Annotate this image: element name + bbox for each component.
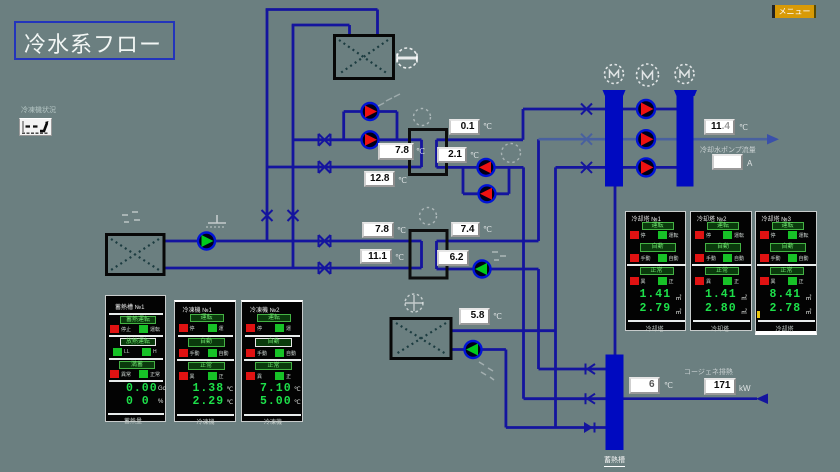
wire riser B x538.5 lower xyxy=(537,269,540,369)
wire riser B x538.5 upper xyxy=(537,139,540,241)
unit B4 xyxy=(470,151,479,160)
wire HX2 left U-turn x421.5 xyxy=(420,241,423,268)
pump HP2 red right xyxy=(637,130,655,148)
wire header1 input line1 y109 xyxy=(523,108,606,111)
icon ghost marks above pump GP1 xyxy=(206,215,226,227)
title text xyxy=(24,27,169,59)
unit B1 xyxy=(416,147,425,156)
valve bowtie on HX1 feed y139.8 xyxy=(319,134,331,146)
unit B6 xyxy=(395,253,404,262)
menu button top right xyxy=(772,5,816,18)
pump RP3 red left xyxy=(478,159,495,176)
wire pump loop1 left manifold x343.7 xyxy=(342,112,345,140)
wire muted header1 input line2 y139.2 xyxy=(539,138,607,141)
wire between header bars y109 xyxy=(622,108,678,111)
wire long riser x523.5 down to bottom header xyxy=(522,167,525,398)
tank T1 xyxy=(335,36,394,79)
unit B11 xyxy=(747,159,752,168)
wire riser x505.9 down xyxy=(504,350,507,428)
wire tank2 top line y241 xyxy=(164,240,422,243)
unit B2 xyxy=(398,176,407,185)
wire tank2 bottom line y268 xyxy=(164,267,422,270)
panel P5 (cooling tower no2) xyxy=(690,211,752,331)
wire vertical riser left x267 xyxy=(266,9,269,242)
wire pump loop2 output y167.4 xyxy=(509,166,524,169)
return line from cogeneration y398.7 xyxy=(623,397,757,400)
valve X on header1 line2 xyxy=(581,134,592,145)
wire pump loop2 left manifold x463 xyxy=(462,167,465,193)
icon ghost marks above pump RP1 xyxy=(378,94,400,106)
wire riser A x523 up xyxy=(522,109,525,140)
valve bowtie on HX1 return y167 xyxy=(319,161,331,173)
icon cooling tower fan 1 xyxy=(605,65,624,84)
valve check on bottom header line1 y369 xyxy=(586,364,596,375)
display box B11 xyxy=(712,154,743,170)
wire pump loop1 right drop x397 xyxy=(396,112,399,140)
valve bowtie on tank2 top line y241 xyxy=(319,235,331,247)
wire HX1 right U-turn x436.5 xyxy=(435,140,438,168)
wire muted supply outlet y139.2 xyxy=(692,138,768,141)
unit B3 xyxy=(483,122,492,131)
display box B8 xyxy=(451,222,480,237)
display box B7 xyxy=(437,250,469,266)
title box xyxy=(14,21,175,60)
display box B2 xyxy=(364,171,395,187)
wire pump loop2 right manifold x509 xyxy=(508,167,511,193)
label above trend button xyxy=(21,105,56,115)
pump GP3 green left xyxy=(465,341,482,358)
wire: tank1 outer top loop xyxy=(164,9,678,428)
wire header1 input line3 y167.4 xyxy=(556,166,607,169)
valve X on header1 line1 xyxy=(581,104,592,115)
pump GP2 green left xyxy=(474,261,491,278)
wire HX2 right bottom line y269 xyxy=(437,268,539,271)
display box B3 xyxy=(449,119,480,135)
valve bowtie on tank2 bottom line y268 xyxy=(319,262,331,274)
icon ghost circle above HX2 xyxy=(420,208,437,225)
heat exchanger HX2 xyxy=(410,231,447,279)
wire bottom header input line3 y427.5 xyxy=(506,426,606,429)
valve triangle on bottom header line3 y427.5 xyxy=(584,422,595,433)
header bar right xyxy=(674,90,697,187)
valve X on header1 line3 xyxy=(581,162,592,173)
icon cooling tower fan 3 xyxy=(675,65,694,84)
unit B12 xyxy=(664,381,673,390)
display box B5 xyxy=(362,222,394,238)
valve X on riser x293 xyxy=(288,210,299,221)
wire HX1 right bottom line y167.4 xyxy=(437,166,510,169)
icon ghost circle above HX1 xyxy=(414,109,431,126)
unit B13 xyxy=(739,384,751,393)
bottom header bar xyxy=(606,355,624,451)
pump HP3 red right xyxy=(637,158,655,176)
wire HX1 left U-turn x421.5 xyxy=(420,140,423,167)
unit B9 xyxy=(493,312,502,321)
icon ghost marks above tank2 xyxy=(122,212,140,222)
panel P4 (cooling tower no1) xyxy=(625,211,687,331)
display box B4 xyxy=(437,147,467,163)
panel P1 (storage tank) xyxy=(105,295,166,422)
display box B1 xyxy=(378,143,414,160)
display box B13 xyxy=(704,378,736,395)
icon fan beside tank1 xyxy=(397,48,417,68)
wire top horizontal y25 xyxy=(292,24,350,27)
wire HX1 feed line y139.8 xyxy=(293,138,422,141)
unit B10 xyxy=(739,123,748,132)
wire HX1 right top line y139.8 to riser A xyxy=(437,138,524,141)
icon ghost marks near pump GP2 xyxy=(492,252,506,260)
wire HX2 right U-turn x436.5 xyxy=(435,241,438,269)
supply outlet arrowhead xyxy=(767,134,779,145)
unit B8 xyxy=(483,225,492,234)
tank T3 xyxy=(391,319,451,359)
pump GP1 green right xyxy=(198,233,215,250)
pump HP1 red right xyxy=(637,100,655,118)
wire header connector x615 xyxy=(614,187,617,356)
display box B10 xyxy=(704,119,735,135)
display box B12 xyxy=(629,377,660,394)
unit B5 xyxy=(397,226,406,235)
heat exchanger HX1 xyxy=(410,130,447,175)
wire bottom header input line1 y369 xyxy=(539,368,607,371)
icon cooling tower fan 2 xyxy=(637,64,659,86)
label under supply arrow xyxy=(700,145,756,155)
wire muted between header bars y139.2 xyxy=(622,138,678,141)
wire drop into tank1 right x377.5 xyxy=(376,10,379,37)
wire pump loop1 top line y111.5 xyxy=(344,110,397,113)
wire tank3 top line y330.7 xyxy=(451,329,556,332)
pump RP4 red left xyxy=(479,185,496,202)
wire HX2 right top line y241 xyxy=(437,240,539,243)
wire riser C x555.5 xyxy=(554,167,557,427)
wire top horizontal y9.5 xyxy=(266,8,378,11)
display box B6 xyxy=(360,249,392,264)
pump RP2 red right xyxy=(362,131,379,148)
wire bottom header input line2 y398.7 xyxy=(524,397,607,400)
icon ghost circle above tank3 xyxy=(405,294,423,312)
return arrowhead pointing left xyxy=(756,394,768,405)
wire between header bars y167.4 xyxy=(622,166,678,169)
panel P6 (cooling tower no3) xyxy=(755,211,818,335)
valve X on riser x267 xyxy=(262,210,273,221)
display box B9 xyxy=(459,308,490,325)
icon ghost circle right of HX1 xyxy=(502,144,521,163)
pump RP1 red right xyxy=(362,103,379,120)
trend button left xyxy=(19,118,52,136)
wire pump loop2 bottom line y193.8 xyxy=(463,192,509,195)
panel P2 (chiller no1) xyxy=(174,300,236,422)
wire HX1 return line y167 xyxy=(267,166,422,169)
header bar left (cooling tower header) xyxy=(603,90,626,187)
panel P3 (chiller no2) xyxy=(241,300,303,422)
tank T2 xyxy=(107,235,165,275)
label above B13 xyxy=(684,367,733,377)
label below bottom header xyxy=(604,455,625,467)
wire tank3 pump line y349.5 xyxy=(451,348,506,351)
wire vertical riser x293 xyxy=(292,25,295,269)
wire drop into tank1 left x349.5 xyxy=(348,25,351,36)
icon ghost marks below pump GP3 xyxy=(479,362,494,380)
valve check on bottom header line2 y398.7 xyxy=(586,393,596,404)
